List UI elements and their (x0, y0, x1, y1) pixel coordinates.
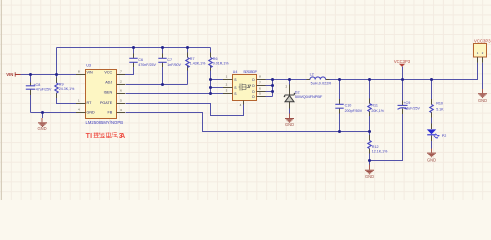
wire C10 leads (339, 80, 341, 132)
svg-text:GND: GND (285, 122, 294, 127)
wire ISEN net (126, 93, 224, 95)
C8 pin leads (30, 83, 32, 96)
svg-text:0.01R,1%: 0.01R,1% (213, 62, 230, 66)
note text TI output current 3A (86, 132, 126, 139)
svg-text:+C8: +C8 (33, 83, 40, 87)
transistor U4 SI7635DP body (233, 70, 257, 100)
capacitor C10 (335, 104, 343, 108)
wire R12 leads (369, 132, 371, 165)
svg-text:C7: C7 (167, 58, 172, 62)
svg-text:SI7635DP: SI7635DP (243, 70, 257, 74)
svg-text:GND: GND (478, 98, 487, 103)
wire VIN net horizontal (21, 74, 77, 76)
svg-text:L2: L2 (310, 72, 314, 76)
capacitor C8 (26, 86, 35, 89)
svg-text:VIN: VIN (87, 71, 93, 75)
svg-text:ISEN: ISEN (104, 91, 113, 95)
wire C9 top lead (402, 80, 404, 101)
capacitor C6 (129, 58, 137, 62)
U4 pin names (234, 78, 255, 99)
svg-text:50WQ04FNPBF: 50WQ04FNPBF (295, 94, 323, 99)
P1 pin stubs (478, 57, 483, 63)
wire FB net long run (126, 113, 370, 132)
svg-text:12.1K,1%: 12.1K,1% (372, 150, 388, 154)
svg-text:TI: TI (86, 133, 93, 140)
capacitor C9 polarized (398, 105, 408, 109)
connector P1 VCC3P3 header (474, 38, 491, 57)
wire VCC3P3 flag lead (402, 67, 404, 80)
wire R6 sense net leads (210, 48, 212, 94)
wire C8 bottom to GND bus (30, 95, 32, 113)
wire VIN top rail (57, 47, 211, 49)
ground symbol under C8 (37, 118, 47, 131)
ground symbol under P1 (478, 89, 487, 103)
svg-text:VCC: VCC (104, 71, 112, 75)
U3 pin names (87, 71, 113, 115)
svg-text:U3: U3 (86, 63, 91, 67)
svg-text:R12: R12 (372, 145, 379, 149)
svg-text:1.43K,1%: 1.43K,1% (190, 62, 206, 66)
wire VIN riser to top rail (56, 48, 58, 75)
C6 pin leads (133, 54, 135, 68)
ground symbol under R12 (365, 165, 374, 180)
svg-text:470nF/25V: 470nF/25V (138, 63, 156, 67)
svg-text:VIN: VIN (6, 72, 13, 77)
D1 pin leads (289, 85, 291, 109)
svg-text:47uF/25V: 47uF/25V (404, 106, 420, 110)
svg-text:200pF/50V: 200pF/50V (345, 109, 363, 113)
wire R11 leads (369, 80, 371, 132)
C10 pin leads (339, 99, 341, 114)
svg-text:GND: GND (37, 126, 46, 131)
LED D2 pin leads (431, 124, 433, 142)
sheet border left edge (0, 0, 3, 200)
wire LED to gnd lead (431, 141, 433, 149)
svg-text:5uH,0.022R: 5uH,0.022R (311, 82, 332, 86)
U3 pin numbers (78, 69, 122, 112)
ground symbol under LED (427, 149, 436, 163)
resistor R6 current sense (209, 58, 212, 68)
resistor R7 (186, 58, 189, 68)
wire R10 leads (431, 80, 433, 124)
svg-text:PGATE: PGATE (100, 101, 113, 105)
svg-text:C10: C10 (345, 103, 352, 107)
svg-text:GND: GND (427, 157, 436, 162)
svg-text:P2: P2 (442, 134, 447, 138)
diode D1 schottky (284, 93, 296, 101)
wire P1 pin2 to gnd (482, 63, 484, 89)
svg-text:R11: R11 (371, 103, 378, 107)
ground symbol under D1 (285, 114, 294, 127)
svg-text:GND: GND (365, 174, 374, 179)
capacitor C7 (158, 58, 166, 62)
LED D2 indicator (427, 129, 440, 138)
svg-text:VCC3P3: VCC3P3 (474, 38, 491, 43)
R7 pin leads (187, 53, 189, 71)
inductor L2 (310, 77, 326, 80)
resistor R10 (430, 105, 433, 113)
svg-text:VCC3P3: VCC3P3 (394, 59, 411, 64)
svg-text:1nF/50V: 1nF/50V (167, 63, 181, 67)
wire GND bus to U3 GND pin (31, 113, 77, 119)
U4 pin numbers (226, 74, 262, 107)
R9 pin leads (56, 78, 58, 99)
svg-text:24.3K,1%: 24.3K,1% (59, 87, 75, 91)
wire C9 bottom link (370, 114, 403, 161)
svg-text:+C9: +C9 (403, 101, 410, 105)
U4 pin stubs (223, 80, 266, 105)
svg-text:3A: 3A (119, 133, 125, 140)
wire D1 top lead (289, 80, 291, 85)
gray component pin leads (31, 53, 432, 154)
R10 pin leads (431, 99, 433, 118)
svg-text:LM25085MY/NOPB: LM25085MY/NOPB (86, 120, 124, 125)
wire source pins S1 S2 (211, 80, 224, 88)
wire C7 leads (162, 48, 164, 85)
svg-text:20K,1%: 20K,1% (371, 109, 384, 113)
R6 pin leads (210, 53, 212, 71)
wire ADJ net (126, 48, 188, 85)
wire C6 to VCC pin (125, 48, 134, 75)
resistor R12 (368, 141, 371, 149)
C9 pin leads (402, 101, 404, 115)
wire PGATE net (126, 104, 244, 116)
resistor R11 (368, 104, 371, 112)
wire output rail VCC3P3 net (273, 63, 478, 80)
svg-text:5.1K: 5.1K (436, 107, 444, 111)
resistor R9 (55, 83, 58, 93)
wire P1 pin1 to rail (477, 63, 479, 80)
svg-text:U4: U4 (233, 70, 238, 74)
svg-text:GND: GND (87, 111, 96, 115)
U3 pin stubs (76, 75, 125, 113)
R12 pin leads (369, 135, 371, 154)
wire drain bus (266, 80, 273, 97)
U4 mosfet glyph (239, 84, 251, 91)
svg-text:47uF/25V: 47uF/25V (36, 88, 52, 92)
svg-text:ADJ: ADJ (105, 81, 112, 85)
L2 pin leads (307, 79, 330, 81)
svg-text:R10: R10 (436, 102, 443, 106)
power flag VCC3P3 (394, 59, 411, 67)
C7 pin leads (162, 54, 164, 68)
R11 pin leads (369, 99, 371, 117)
svg-text:R9: R9 (59, 82, 64, 86)
svg-text:FB: FB (107, 111, 112, 115)
svg-text:R6: R6 (213, 57, 218, 61)
IC U3 LM25085 body (86, 63, 117, 118)
svg-text:C6: C6 (138, 58, 143, 62)
svg-text:RT: RT (87, 101, 93, 105)
svg-text:R7: R7 (190, 57, 195, 61)
wire C8 top lead (30, 75, 32, 83)
wire R9 to RT pin (57, 75, 77, 104)
wire D1 bottom lead (289, 109, 291, 114)
port VIN (6, 72, 20, 77)
